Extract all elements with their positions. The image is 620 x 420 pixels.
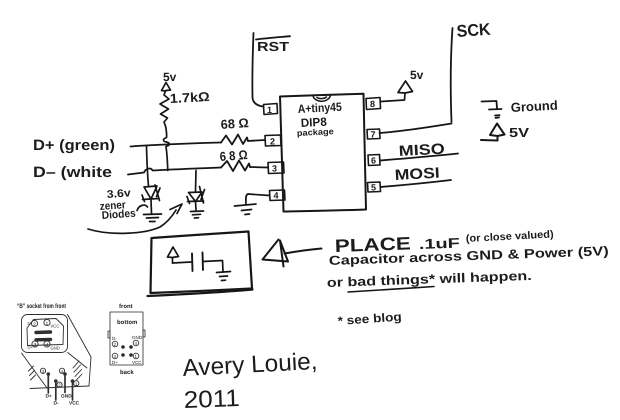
socket hex outline [27,319,64,346]
legend label Ground [510,98,558,115]
svg-text:5v: 5v [410,68,424,82]
hatch left [29,366,36,380]
pin 4 numeral [274,191,279,201]
box edge top-right diagonal [68,315,92,358]
label Attiny45 [297,100,342,116]
svg-text:GND: GND [51,346,60,351]
box edge left diagonal [22,353,48,388]
side tabs [108,330,145,338]
svg-text:* see blog: * see blog [337,310,402,328]
box edge bottom-right short diagonal [68,353,87,369]
pin 4 box [270,190,286,201]
face pin circle 4 [44,341,50,347]
svg-text:8: 8 [370,99,375,109]
svg-text:6: 6 [371,156,376,166]
center dots [121,345,125,349]
svg-text:VCC: VCC [132,360,142,365]
pin 6 box [368,155,380,166]
wire branch D- to zener D2 [195,171,198,192]
svg-text:7: 7 [371,130,376,140]
net label MOSI [394,165,440,184]
svg-text:A+tiny45: A+tiny45 [297,100,342,116]
svg-text:1.7kΩ: 1.7kΩ [169,89,210,106]
pin 1 numeral [267,105,272,115]
svg-text:D-: D- [112,336,117,341]
svg-text:5: 5 [371,183,376,193]
svg-text:D-: D- [54,401,59,407]
pin 8 numeral [370,99,375,109]
svg-text:package: package [297,126,335,138]
pin labels lower [112,353,118,359]
socket pin A (D+) [47,375,49,394]
legend ground symbol [482,101,502,118]
pin 1 box [264,104,278,115]
svg-text:bottom: bottom [117,319,137,326]
resistor R2 68 ohm (D+ to pin2) [221,135,248,145]
svg-text:D– (white: D– (white [33,164,112,181]
annotation arrow from PLACE text to inset box [263,240,322,267]
legend label 5V [509,125,529,140]
wire D2 to ground [195,202,198,211]
svg-text:D+ (green): D+ (green) [33,137,115,154]
svg-text:2: 2 [270,137,275,147]
ground (inset) [217,272,231,281]
wire pin7 to SCK [380,124,452,134]
label 5v (R1 supply) [163,70,177,84]
capacitor C1 plates [192,253,203,272]
socket contact bar lower [36,338,51,342]
face pin circle 3 [32,341,38,347]
svg-text:3: 3 [272,164,277,174]
wire RST vertical from top to pin 1 [252,33,263,107]
svg-text:GND: GND [132,335,143,340]
svg-text:D-: D- [28,321,33,326]
face pin circle 2 [31,320,37,326]
ground (pin 4) [235,204,257,215]
pin 5 box [368,182,381,192]
label 3.6v zener diodes [99,187,136,222]
annotation arrow to zeners (curved) [88,204,182,233]
wire pin8 to 5V arrow [381,93,406,102]
node D+ label [33,137,115,154]
svg-text:1: 1 [46,321,49,327]
svg-text:D+: D+ [112,360,118,365]
wire D+ line [131,143,222,147]
node SCK label [456,20,492,41]
power 5V arrow (pin 8) [398,81,413,93]
svg-text:4: 4 [46,342,49,348]
wire SCK vertical [451,28,453,122]
svg-text:3: 3 [34,342,37,348]
pin 3 numeral [272,164,277,174]
annotation text or bad things will happen [327,268,532,292]
wire inset 5V to capacitor [173,262,192,263]
annotation note see blog [337,310,402,328]
wire branch D+ to zener D1 [147,146,149,186]
svg-text:back: back [120,369,134,376]
pin B number circle 2 [57,382,62,387]
svg-text:6 8 Ω: 6 8 Ω [219,147,248,164]
pin 6 numeral [371,156,376,166]
wire R1 lead down crossing D+ with hop, joining D- [164,126,170,171]
pin 2 numeral [270,137,275,147]
pin A number circle 3 [40,368,45,373]
annotation text capacitor across GND & Power (5V) [329,243,609,268]
op chip U1 ATtiny45 body [280,94,366,212]
zener diode D1 [142,185,160,202]
zener diode D2 [187,187,205,204]
annotation text PLACE .1uF (or close valued) [334,228,554,256]
svg-text:68 Ω: 68 Ω [220,115,249,132]
pin 8 box [366,98,381,110]
svg-text:MOSI: MOSI [394,165,440,184]
svg-text:RST: RST [257,39,289,54]
pin 7 box [367,129,380,139]
svg-text:5V: 5V [509,125,529,140]
wire capacitor to ground (inset) [203,261,223,272]
plug outline [110,312,143,365]
face pin circle 1 [44,319,50,325]
net label MISO [398,141,445,160]
svg-text:VCC: VCC [51,324,60,329]
wire MOSI (pin 5) [381,180,452,187]
wire MISO (pin 6) [380,154,458,161]
socket contact bar upper [36,330,51,334]
printed figure: USB plug bottom view [108,303,145,376]
label 68 ohm (R2) [220,115,249,132]
ground (D1) [144,214,162,222]
wire D- line with hop over zener branch [128,168,221,175]
socket pin C (GND) [64,375,66,393]
wire D1 to ground [150,200,153,214]
box edge right [89,357,91,386]
chip notch [313,95,331,101]
label 1.7k ohm [169,89,210,106]
box edge bottom [30,386,89,389]
wire pin4 to ground [246,194,270,205]
svg-text:Diodes: Diodes [101,208,136,222]
pin C number circle 4 [59,368,64,373]
svg-text:Avery Louie,: Avery Louie, [182,348,318,382]
svg-text:2011: 2011 [183,385,240,414]
svg-text:D+: D+ [46,394,52,400]
svg-text:MISO: MISO [398,141,445,160]
pin D number circle 1 [74,381,79,386]
resistor R3 68 ohm (D- to pin3) [221,161,250,172]
pin 3 box [268,162,284,174]
svg-text:5v: 5v [163,70,177,84]
label 68 ohm (R3) [219,147,248,164]
hatch right [73,361,82,381]
ground (D2) [191,211,204,218]
label 5v (pin 8) [410,68,424,82]
pin 2 box [265,135,281,146]
signature Avery Louie 2011 [182,348,318,414]
wire R3 to pin3 [250,166,268,169]
printed figure: USB B socket 3D view [17,303,91,407]
svg-text:GND: GND [61,394,72,400]
svg-text:VCC: VCC [69,401,80,407]
power 5V arrow (inset) [168,247,179,263]
socket pin B (D-) [55,382,57,401]
svg-text:1: 1 [267,105,272,115]
svg-text:D+: D+ [28,345,34,350]
svg-text:Ground: Ground [510,98,558,115]
socket pin D (VCC) [72,382,74,401]
legend 5V arrow symbol [481,124,505,141]
resistor R1 1.7k ohm vertical squiggle [160,91,169,126]
svg-text:front: front [119,303,133,310]
svg-text:2: 2 [33,322,36,328]
pin 7 numeral [371,130,376,140]
socket face panel [22,315,68,353]
svg-text:4: 4 [274,191,279,201]
label package [297,126,335,138]
wire R2 to pin2 [248,140,265,141]
svg-text:(or close valued): (or close valued) [466,228,555,245]
label DIP8 [300,115,327,130]
svg-text:“B” socket from front: “B” socket from front [17,303,67,310]
node RST label with overline [256,36,290,54]
node D- label [33,164,112,181]
svg-text:SCK: SCK [456,20,492,41]
power 5V arrow above R1 [162,83,171,92]
pin 5 numeral [371,183,376,193]
inset detail box [148,232,253,297]
